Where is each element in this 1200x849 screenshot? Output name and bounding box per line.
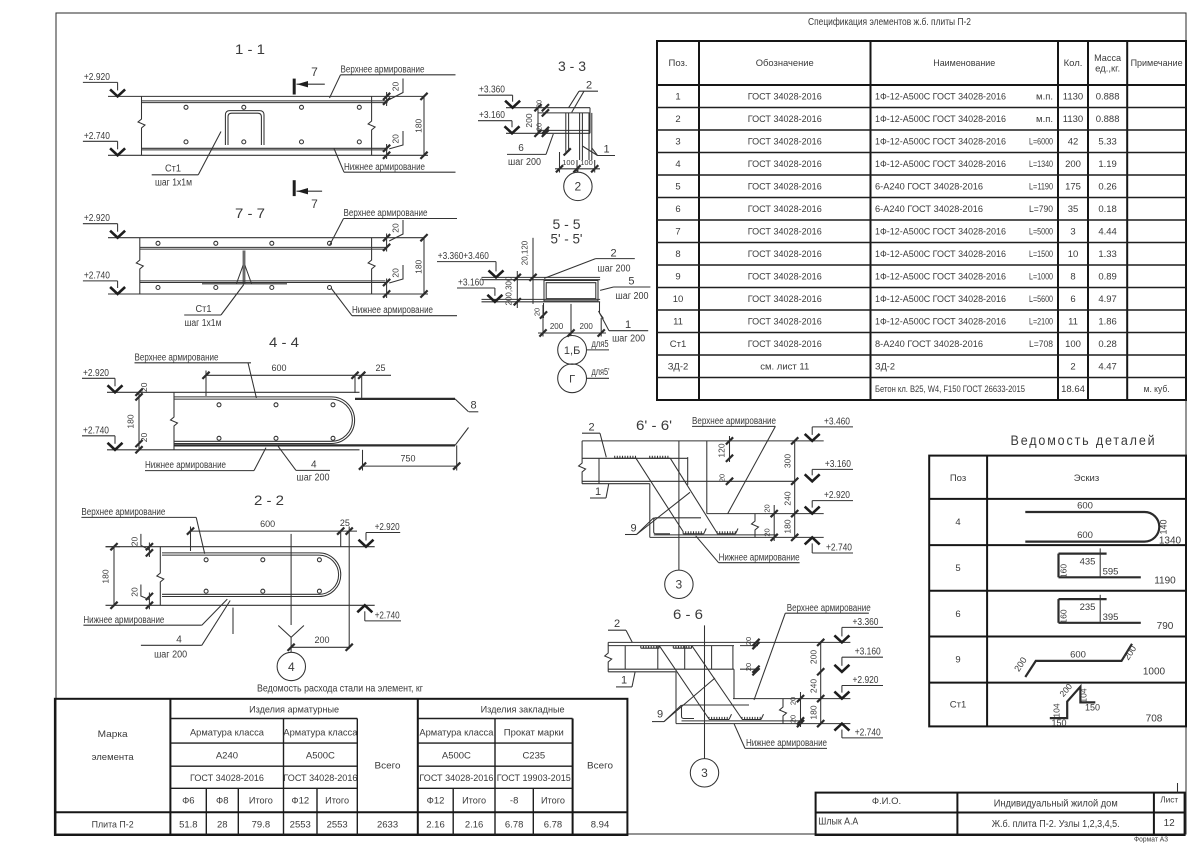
svg-text:1Ф-12-А500С ГОСТ 34028-2016: 1Ф-12-А500С ГОСТ 34028-2016 [875, 92, 1006, 103]
svg-text:Формат А3: Формат А3 [1134, 837, 1168, 844]
svg-text:Нижнее армирование: Нижнее армирование [746, 738, 827, 749]
section 7-7 bottom reinforcement bars [140, 280, 386, 282]
svg-text:395: 395 [1103, 612, 1119, 623]
section 6'-6' drop bottom edge [650, 536, 824, 538]
svg-text:6-А240 ГОСТ 34028-2016: 6-А240 ГОСТ 34028-2016 [875, 182, 983, 193]
svg-text:180: 180 [808, 705, 818, 719]
elevation mark +2.740 of section 4-4 [82, 435, 115, 437]
section 6'-6' wall face vertical [706, 441, 708, 514]
svg-text:Ст1: Ст1 [196, 304, 212, 315]
svg-text:ГОСТ 34028-2016: ГОСТ 34028-2016 [748, 272, 822, 283]
svg-text:3: 3 [675, 137, 680, 148]
elevation mark +2.920 of section 7-7 [83, 223, 118, 225]
elevation mark +2.920 of section 6-6 [842, 685, 883, 687]
svg-text:20: 20 [535, 123, 544, 131]
svg-text:+3.360: +3.360 [853, 617, 879, 628]
svg-text:Верхнее армирование: Верхнее армирование [81, 507, 165, 518]
svg-text:Марка: Марка [98, 729, 129, 740]
svg-text:20: 20 [789, 697, 798, 705]
section 1-1 stirrup Ct1 hoop [225, 111, 264, 145]
svg-text:7 - 7: 7 - 7 [235, 205, 265, 221]
svg-text:шаг 200: шаг 200 [508, 157, 541, 168]
svg-text:Примечание: Примечание [1131, 58, 1183, 69]
svg-text:120: 120 [717, 443, 727, 457]
title block grid [816, 793, 1185, 835]
svg-text:1: 1 [625, 319, 631, 331]
svg-text:140: 140 [1159, 519, 1169, 534]
svg-text:1Ф-12-А500С ГОСТ 34028-2016: 1Ф-12-А500С ГОСТ 34028-2016 [875, 249, 1006, 260]
svg-text:9: 9 [630, 523, 636, 535]
section 5-5 small 20 dim [540, 311, 547, 318]
elevation mark +2.740 of section 6-6 [842, 737, 883, 739]
svg-text:25: 25 [340, 518, 350, 528]
svg-text:600: 600 [1077, 501, 1093, 512]
svg-text:+2.740: +2.740 [83, 425, 109, 436]
svg-text:1: 1 [603, 144, 609, 156]
svg-text:1 - 1: 1 - 1 [235, 41, 265, 57]
svg-text:20: 20 [533, 308, 542, 316]
svg-text:10: 10 [1068, 249, 1079, 260]
svg-text:Шлык А.А: Шлык А.А [818, 817, 858, 828]
svg-text:ЗД-2: ЗД-2 [875, 362, 895, 373]
svg-text:100: 100 [580, 158, 593, 167]
section 1-1 slab right break edge [368, 96, 375, 155]
svg-text:1,Б: 1,Б [564, 345, 580, 357]
svg-text:Итого: Итого [541, 796, 565, 807]
section 7-7 mesh Ст1 vertical wire with splayed feet [242, 251, 244, 284]
dimension 120 of section 6'-6' [729, 436, 731, 462]
svg-text:4: 4 [311, 460, 317, 471]
svg-text:6: 6 [675, 204, 680, 215]
svg-text:0.18: 0.18 [1098, 204, 1117, 215]
svg-text:Эскиз: Эскиз [1074, 473, 1099, 484]
svg-text:9: 9 [657, 709, 663, 721]
svg-text:18.64: 18.64 [1061, 384, 1085, 395]
svg-text:4: 4 [675, 159, 680, 170]
small 20 dims of section 6-6 [752, 639, 759, 646]
small 20 dims of section 6'-6' [726, 478, 733, 485]
svg-text:2 - 2: 2 - 2 [254, 492, 284, 508]
svg-text:6: 6 [1070, 294, 1075, 305]
svg-text:Индивидуальный жилой дом: Индивидуальный жилой дом [994, 799, 1118, 810]
svg-text:ГОСТ 34028-2016: ГОСТ 34028-2016 [748, 317, 822, 328]
svg-text:+2.920: +2.920 [824, 490, 850, 501]
svg-text:2553: 2553 [290, 819, 311, 830]
svg-text:Масса: Масса [1094, 53, 1122, 64]
elevation mark +3.360 of section 3-3 [478, 94, 513, 96]
svg-text:200: 200 [580, 322, 594, 331]
section 1-1 slab left break edge [138, 96, 145, 155]
section 6'-6' break on thin部 [752, 514, 759, 538]
svg-text:35: 35 [1068, 204, 1079, 215]
section 1-1 slab bottom edge line [108, 154, 428, 156]
svg-text:2.16: 2.16 [465, 819, 484, 830]
section 7-7 bottom rebar dots [156, 286, 160, 290]
section 2-2 break V mark on axis [278, 626, 304, 638]
svg-text:А240: А240 [216, 751, 238, 762]
svg-text:+2.740: +2.740 [84, 131, 110, 142]
svg-text:ед.,кг.: ед.,кг. [1095, 64, 1120, 75]
section 6'-6' top reinforcement line [582, 457, 688, 459]
svg-text:750: 750 [400, 454, 415, 464]
svg-text:2: 2 [575, 180, 582, 194]
svg-text:шаг 1х1м: шаг 1х1м [185, 318, 222, 329]
axis line and node circle 3 of section 6'-6' [678, 441, 680, 570]
specification table grid [657, 41, 1186, 400]
svg-text:180: 180 [782, 519, 792, 533]
section 7-7 slab bottom edge line [108, 293, 428, 295]
svg-text:Ст1: Ст1 [670, 339, 687, 350]
section 4-4 left break line [171, 392, 178, 450]
section cut mark 7 upper [293, 79, 296, 95]
svg-text:708: 708 [1146, 714, 1163, 725]
svg-text:Арматура класса: Арматура класса [283, 728, 358, 739]
svg-text:6' - 6': 6' - 6' [636, 417, 672, 433]
dimension 180 right of section 1-1 [423, 96, 425, 155]
svg-text:1340: 1340 [1159, 536, 1182, 547]
svg-text:10: 10 [673, 294, 684, 305]
svg-text:1: 1 [621, 675, 627, 687]
svg-text:ГОСТ 34028-2016: ГОСТ 34028-2016 [748, 339, 822, 350]
svg-text:ГОСТ 34028-2016: ГОСТ 34028-2016 [190, 773, 264, 784]
svg-text:3: 3 [1070, 227, 1075, 238]
svg-text:ГОСТ 34028-2016: ГОСТ 34028-2016 [748, 114, 822, 125]
node circle 1,Б for 5 with label для5 [558, 336, 587, 365]
section 6'-6' bottom reinforcement line [582, 480, 795, 482]
svg-text:20: 20 [535, 100, 544, 108]
svg-text:2.16: 2.16 [426, 819, 445, 830]
vedomost detaley table grid [929, 456, 1186, 727]
svg-text:ГОСТ 34028-2016: ГОСТ 34028-2016 [748, 159, 822, 170]
section 2-2 slab bottom edge line [106, 604, 375, 606]
elevation mark +2.920 of section 4-4 [82, 377, 115, 379]
svg-text:Ст1: Ст1 [950, 700, 967, 711]
section 6-6 slab bottom edge [608, 671, 676, 673]
svg-text:Плита П-2: Плита П-2 [92, 819, 134, 830]
svg-text:5: 5 [628, 276, 634, 288]
svg-text:20: 20 [391, 268, 401, 278]
node circle Г with label для5' [558, 364, 587, 393]
dimension 20 bottom left of section 2-2 [146, 593, 153, 600]
svg-text:4 - 4: 4 - 4 [269, 334, 299, 350]
svg-text:Арматура класса: Арматура класса [419, 728, 494, 739]
svg-text:шаг 200: шаг 200 [598, 264, 631, 275]
svg-text:4.47: 4.47 [1098, 362, 1117, 373]
svg-text:0.89: 0.89 [1098, 272, 1117, 283]
section 6'-6' drop left face [649, 484, 651, 538]
section 2-2 bottom rebar dots [204, 589, 208, 593]
svg-text:L=5600: L=5600 [1029, 294, 1053, 305]
svg-text:2: 2 [614, 618, 620, 630]
dimension 200 of section 3-3 [537, 108, 539, 134]
svg-text:+3.160: +3.160 [479, 110, 505, 121]
svg-text:240: 240 [782, 491, 792, 505]
svg-text:+2.740: +2.740 [826, 543, 852, 554]
svg-text:1.19: 1.19 [1098, 159, 1117, 170]
svg-text:6: 6 [955, 609, 960, 620]
svg-text:L=1000: L=1000 [1029, 272, 1053, 283]
svg-text:Ф6: Ф6 [182, 796, 195, 807]
svg-text:L=708: L=708 [1029, 339, 1053, 350]
elevation mark +2.740 of section 7-7 [83, 280, 118, 282]
svg-text:0.888: 0.888 [1096, 114, 1120, 125]
svg-text:6.78: 6.78 [544, 819, 563, 830]
section 3-3 band bottom reinforcement [538, 129, 590, 131]
svg-text:1130: 1130 [1063, 114, 1083, 125]
svg-text:20: 20 [744, 663, 753, 671]
svg-text:+3.460: +3.460 [824, 416, 850, 427]
svg-text:200: 200 [1065, 159, 1081, 170]
svg-text:Нижнее армирование: Нижнее армирование [344, 162, 425, 173]
svg-text:200: 200 [1122, 644, 1139, 662]
section 4-4 bottom rebar dots [217, 436, 221, 440]
svg-text:+2.740: +2.740 [855, 727, 881, 738]
svg-text:595: 595 [1103, 567, 1119, 578]
svg-text:Г: Г [569, 373, 575, 385]
section 3-3 band bottom edge [506, 132, 590, 134]
svg-text:6 - 6: 6 - 6 [673, 606, 703, 622]
section 7-7 top rebar dots [156, 241, 160, 245]
svg-text:Верхнее армирование: Верхнее армирование [341, 65, 425, 76]
svg-text:79.8: 79.8 [252, 819, 271, 830]
svg-text:1Ф-12-А500С ГОСТ 34028-2016: 1Ф-12-А500С ГОСТ 34028-2016 [875, 159, 1006, 170]
svg-text:1Ф-12-А500С ГОСТ 34028-2016: 1Ф-12-А500С ГОСТ 34028-2016 [875, 114, 1006, 125]
svg-text:7: 7 [311, 197, 318, 211]
svg-text:600: 600 [260, 519, 275, 529]
svg-text:ГОСТ 34028-2016: ГОСТ 34028-2016 [748, 92, 822, 103]
svg-text:790: 790 [1157, 621, 1174, 632]
section 6-6 slab top edge [608, 641, 850, 643]
section 6'-6' drop bottom reinforcement [654, 534, 777, 536]
svg-text:1Ф-12-А500С ГОСТ 34028-2016: 1Ф-12-А500С ГОСТ 34028-2016 [875, 137, 1006, 148]
svg-text:+2.920: +2.920 [84, 213, 110, 224]
svg-text:Нижнее армирование: Нижнее армирование [145, 460, 226, 471]
svg-text:600: 600 [271, 363, 286, 373]
svg-text:200: 200 [524, 113, 534, 127]
svg-text:Итого: Итого [462, 796, 486, 807]
svg-text:8.94: 8.94 [591, 819, 610, 830]
svg-text:435: 435 [1080, 557, 1096, 568]
section 1-1 top rebar dots [184, 105, 188, 109]
svg-text:Нижнее армирование: Нижнее армирование [83, 615, 164, 626]
section cut mark 7 lower [293, 180, 296, 196]
svg-text:2: 2 [675, 114, 680, 125]
svg-text:Ж.б. плита П-2. Узлы 1,2,3,4,5: Ж.б. плита П-2. Узлы 1,2,3,4,5. [992, 818, 1120, 830]
svg-text:+3.160: +3.160 [825, 459, 851, 470]
svg-text:Всего: Всего [375, 761, 401, 772]
elevation mark +3.460 of section 6'-6' [812, 426, 853, 428]
dimension 20 top right of section 1-1 [383, 93, 390, 100]
svg-text:6.78: 6.78 [505, 819, 524, 830]
svg-text:L=2100: L=2100 [1029, 317, 1053, 328]
svg-text:элемента: элемента [92, 752, 135, 763]
section 4-4 top rebar dots [217, 403, 221, 407]
svg-text:Арматура класса: Арматура класса [190, 728, 265, 739]
elevation mark +3.360+3.460 of section 5-5 [437, 261, 496, 263]
svg-text:200: 200 [808, 650, 818, 664]
section 4-4 slab bottom edge line [107, 449, 360, 451]
svg-text:25: 25 [375, 363, 385, 373]
dimension 100 100 of section 3-3 [555, 168, 600, 170]
svg-text:12: 12 [1164, 818, 1176, 829]
dimension 200 below section 2-2 [291, 646, 349, 648]
svg-text:+3.160: +3.160 [855, 647, 881, 658]
svg-text:м.п.: м.п. [1036, 114, 1053, 125]
svg-text:Ст1: Ст1 [165, 163, 181, 174]
section 6'-6' top reinforcement combs [615, 456, 636, 459]
svg-text:42: 42 [1068, 137, 1079, 148]
elevation mark +2.740 of section 1-1 [83, 140, 118, 142]
svg-text:160: 160 [1059, 609, 1069, 623]
section 6-6 bottom reinforcement line [608, 668, 734, 670]
section 1-1 top reinforcement bars [142, 100, 388, 102]
section 2-2 hairpin bar 4 outline [162, 553, 341, 597]
svg-text:А500С: А500С [442, 751, 471, 762]
svg-text:6: 6 [518, 143, 524, 154]
elevation mark +2.740 of section 2-2 [365, 620, 401, 622]
svg-text:для5': для5' [592, 367, 610, 378]
svg-text:Верхнее армирование: Верхнее армирование [344, 208, 428, 219]
svg-text:-8: -8 [510, 796, 518, 807]
section 6'-6' bar 9 lower box [654, 518, 701, 534]
section 6-6 drop bottom reinforcement [682, 720, 801, 722]
dimension chain 200-240-180 right of section 6-6 [820, 642, 822, 723]
svg-text:Изделия закладные: Изделия закладные [481, 705, 565, 716]
svg-text:3: 3 [676, 578, 683, 592]
section 7-7 slab left break edge [136, 238, 143, 294]
svg-text:240: 240 [808, 679, 818, 693]
svg-text:150: 150 [1051, 718, 1066, 728]
svg-text:5.33: 5.33 [1098, 137, 1117, 148]
section 1-1 bottom rebar dots [184, 140, 188, 144]
svg-text:100: 100 [1065, 339, 1081, 350]
svg-text:20: 20 [139, 382, 149, 392]
section 7-7 slab right break edge [368, 238, 375, 294]
section 5-5 slab bottom edge [482, 301, 601, 303]
svg-text:шаг 200: шаг 200 [612, 334, 645, 345]
svg-text:3 - 3: 3 - 3 [558, 58, 586, 74]
svg-text:200,300: 200,300 [505, 276, 514, 305]
svg-text:Верхнее армирование: Верхнее армирование [787, 603, 871, 614]
svg-text:Верхнее армирование: Верхнее армирование [135, 352, 219, 363]
dimension 600 of section 2-2 [191, 530, 358, 532]
axis line and node circle 3 of section 6-6 [704, 625, 706, 758]
svg-text:Ф.И.О.: Ф.И.О. [872, 796, 901, 807]
svg-text:200: 200 [1012, 655, 1029, 673]
svg-text:4: 4 [955, 517, 960, 528]
vedomost sketch of detail 4 hairpin [1025, 512, 1159, 542]
dimension 20 bottom right of section 1-1 [383, 145, 390, 152]
svg-text:20: 20 [744, 637, 753, 645]
section 3-3 band second line [538, 112, 590, 114]
svg-text:Нижнее армирование: Нижнее армирование [352, 305, 433, 316]
svg-text:9: 9 [675, 272, 680, 283]
svg-text:7: 7 [311, 65, 318, 79]
svg-text:шаг 200: шаг 200 [616, 291, 649, 302]
svg-text:Итого: Итого [325, 796, 349, 807]
vedomost sketch of detail Ст1 [1050, 687, 1096, 719]
node circle 2 of section 3-3 [577, 169, 579, 172]
section 6'-6' bar 9 lower combs [683, 531, 701, 534]
svg-text:А500С: А500С [306, 751, 335, 762]
elevation mark +2.920 of section 1-1 [83, 81, 118, 83]
svg-text:Поз.: Поз. [669, 58, 688, 69]
svg-text:+3.360: +3.360 [479, 85, 505, 96]
svg-text:м. куб.: м. куб. [1144, 384, 1170, 395]
svg-text:1000: 1000 [1143, 667, 1166, 678]
svg-text:600: 600 [1070, 650, 1086, 661]
svg-text:L=1500: L=1500 [1029, 249, 1053, 260]
svg-text:ГОСТ 34028-2016: ГОСТ 34028-2016 [283, 773, 357, 784]
svg-text:С235: С235 [522, 751, 545, 762]
svg-text:Кол.: Кол. [1064, 58, 1083, 69]
svg-text:20: 20 [763, 504, 772, 512]
svg-text:+2.740: +2.740 [375, 611, 400, 622]
svg-text:2: 2 [1070, 362, 1075, 373]
section 7-7 top reinforcement bars [140, 246, 386, 248]
svg-text:4.97: 4.97 [1098, 294, 1117, 305]
steel consumption table grid [55, 699, 628, 835]
dimension 200 200 below section 5-5 [538, 332, 606, 334]
svg-text:20: 20 [718, 474, 727, 482]
svg-text:+2.920: +2.920 [84, 72, 110, 83]
svg-text:0.28: 0.28 [1098, 339, 1117, 350]
svg-text:200: 200 [314, 635, 329, 645]
svg-text:Ф12: Ф12 [291, 796, 309, 807]
svg-text:51.8: 51.8 [179, 819, 198, 830]
svg-text:300: 300 [782, 454, 792, 468]
svg-text:ЗД-2: ЗД-2 [668, 362, 689, 373]
svg-text:2633: 2633 [377, 819, 398, 830]
section 5-5 slab top second line [482, 279, 601, 281]
svg-text:20,120: 20,120 [521, 240, 530, 265]
dimension 750 of section 4-4 [363, 465, 457, 467]
section 6-6 left break line [605, 642, 612, 671]
dimension 180 right of section 7-7 [423, 238, 425, 294]
dimension 200,300 left of section 5-5 [516, 271, 518, 308]
vedomost sketch of detail 6 [1059, 598, 1107, 600]
svg-text:180: 180 [413, 118, 423, 132]
svg-text:8: 8 [470, 400, 476, 412]
svg-text:1: 1 [675, 92, 680, 103]
svg-text:20: 20 [391, 223, 401, 233]
svg-text:Спецификация элементов ж.б. пл: Спецификация элементов ж.б. плиты П-2 [808, 16, 971, 28]
svg-text:Ведомость деталей: Ведомость деталей [1011, 433, 1157, 448]
section 6-6 drop bottom edge [676, 723, 850, 725]
section 6-6 ledge line [733, 698, 850, 700]
svg-text:+2.920: +2.920 [375, 522, 400, 533]
svg-text:Ф12: Ф12 [427, 796, 445, 807]
svg-text:шаг 200: шаг 200 [154, 650, 187, 661]
dimension 600 of section 4-4 [206, 374, 391, 376]
svg-text:2: 2 [588, 422, 594, 434]
svg-text:104: 104 [1052, 703, 1062, 717]
vedomost sketch of detail 5 [1059, 552, 1107, 554]
svg-text:L=790: L=790 [1029, 204, 1053, 215]
svg-text:5' - 5': 5' - 5' [551, 231, 583, 247]
svg-text:1.86: 1.86 [1098, 317, 1117, 328]
svg-text:1Ф-12-А500С ГОСТ 34028-2016: 1Ф-12-А500С ГОСТ 34028-2016 [875, 272, 1006, 283]
svg-text:5: 5 [955, 563, 960, 574]
svg-text:1.33: 1.33 [1098, 249, 1117, 260]
svg-text:235: 235 [1080, 602, 1096, 613]
svg-text:1Ф-12-А500С ГОСТ 34028-2016: 1Ф-12-А500С ГОСТ 34028-2016 [875, 317, 1006, 328]
svg-text:1130: 1130 [1063, 92, 1083, 103]
svg-text:20: 20 [129, 587, 139, 597]
section 7-7 slab top edge line [108, 237, 424, 239]
svg-text:Итого: Итого [249, 796, 273, 807]
svg-text:1: 1 [595, 486, 601, 498]
